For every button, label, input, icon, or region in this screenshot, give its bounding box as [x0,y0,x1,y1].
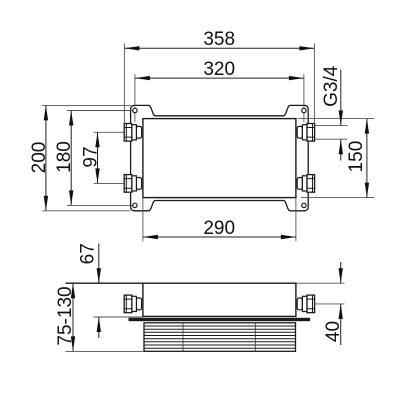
fitting top-left nut face and ridges [124,124,132,142]
svg-text:200: 200 [29,142,50,174]
side view mounting plate [129,318,310,320]
ext line G3/4 bottom [315,138,348,140]
ext line 67 bottom [94,316,143,318]
side view fin stack box [144,323,296,352]
side fitting right collar [297,298,302,310]
arrow 75-130 top [71,283,75,298]
side fitting right nut [307,295,315,313]
svg-text:358: 358 [203,29,235,50]
dim line 200 [45,105,47,210]
ext line 200 bottom [42,210,130,212]
side view top edge with left extension [66,282,296,284]
svg-text:320: 320 [203,59,235,80]
arrow 290 left [143,235,158,239]
dim line G3/4 arrows tails [340,70,342,126]
ext line 200 top [42,104,130,106]
ext line 180 top [67,110,133,112]
fin lines [144,326,296,348]
ext line 40 top [296,282,345,284]
arrow 97 bottom [95,168,99,183]
fitting bottom-right collar [297,178,302,190]
arrow 320 left [135,76,150,80]
ext line 180 bottom [67,204,133,206]
fitting bottom-right nut face and ridges [307,175,315,193]
body rectangle top view [143,119,296,198]
ext line 40 center [314,303,344,305]
fitting top-left plate [132,125,137,140]
fitting bottom-right nut [307,175,315,193]
dim line 180 [70,111,72,206]
arrow 320 right [289,76,304,80]
arrow G3/4 down [339,110,343,125]
side fitting right nut face and ridges [307,295,315,313]
dim line 75-130 [72,283,74,351]
svg-text:40: 40 [323,321,344,342]
ext line 358 right [313,44,315,124]
fitting top-left collar [136,126,141,138]
arrow 200 top [44,105,48,120]
arrow 358 left [124,46,139,50]
ext line 97 top [94,131,124,133]
svg-text:G3/4: G3/4 [321,65,342,107]
side fitting left nut face and ridges [124,295,132,313]
svg-text:97: 97 [80,146,101,167]
side fitting left collar [136,298,141,310]
dim line 97 [97,132,99,183]
flange plate outline [131,105,309,210]
svg-text:75-130: 75-130 [55,286,76,345]
arrow 180 top [69,111,73,126]
ext line G3/4 top [315,124,348,126]
arrow 150 bottom [365,183,369,198]
dim line 150 [366,119,368,198]
svg-text:180: 180 [54,141,75,173]
dim line 320 [135,77,304,79]
ext line 150 top [298,118,375,120]
dim line 358 [124,47,314,49]
ext line 290 right [295,198,297,242]
ext line 320 left [134,74,136,122]
screw hole top-right [302,108,306,112]
ext line 150 bottom [301,197,374,199]
screw hole top-left [133,108,137,112]
screw hole bottom-left [133,203,137,207]
ext line 97 bottom [94,182,124,184]
arrow G3/4 up [339,139,343,154]
arrow 40 up [339,304,343,319]
side fitting left nut [124,295,132,313]
fitting top-right collar [297,126,302,138]
fitting top-right nut [307,124,315,142]
arrow 180 bottom [69,190,73,205]
dim line 40 tails [340,262,342,283]
side fitting left plate [132,296,137,311]
fitting bottom-left nut [124,175,132,193]
ext line 358 left [123,44,125,124]
svg-text:67: 67 [78,243,99,264]
arrow 40 down [339,268,343,283]
ext line 320 right [303,74,305,122]
arrow 67 up [97,317,101,332]
screw hole bottom-right [302,203,306,207]
fitting top-right plate [302,125,307,140]
dim line 67 tails [98,244,100,284]
ext line 290 left [142,198,144,242]
svg-text:150: 150 [346,141,367,173]
fitting top-left nut [124,124,132,142]
arrow 200 bottom [44,196,48,211]
svg-text:290: 290 [203,218,235,239]
fitting bottom-left nut face and ridges [124,175,132,193]
arrow 97 top [95,132,99,147]
fitting bottom-right plate [302,176,307,191]
arrow 67 down [97,268,101,283]
side fitting right plate [302,296,307,311]
side view body box [143,283,296,316]
fin tie rod right [254,323,256,352]
arrow 75-130 bottom [71,336,75,351]
fitting top-right nut face and ridges [307,124,315,142]
dim line 290 [143,236,296,238]
arrow 358 right [299,46,314,50]
fitting bottom-left plate [132,176,137,191]
arrow 290 right [281,235,296,239]
arrow 150 top [365,119,369,134]
fitting bottom-left collar [136,178,141,190]
fin tie rod left [182,323,184,352]
ext line 75-130 bottom [66,350,145,352]
